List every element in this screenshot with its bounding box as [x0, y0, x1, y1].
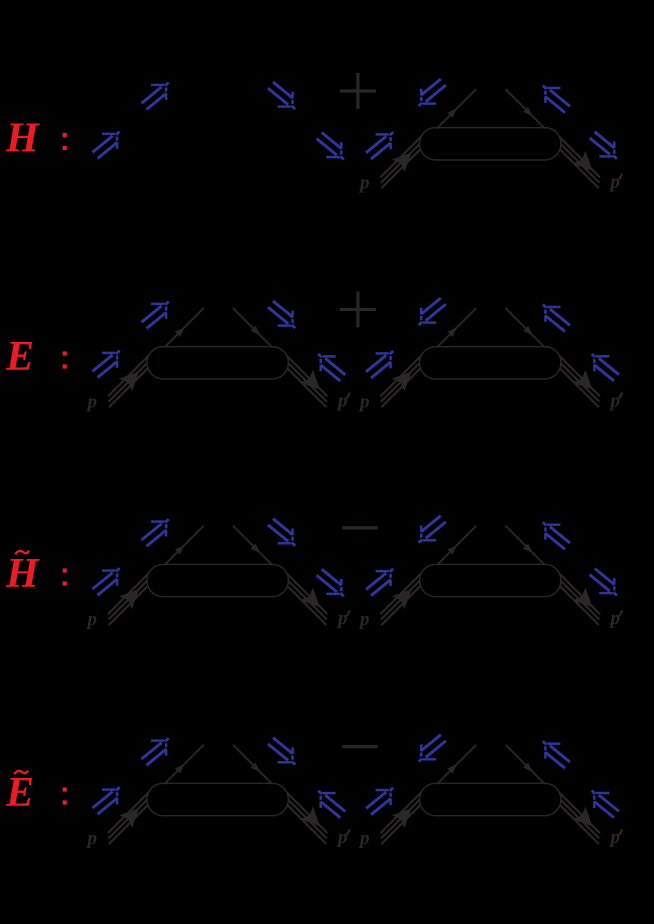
plus sign: [340, 73, 376, 109]
svg-text:H: H: [5, 551, 40, 597]
spin arrow B4 (flipped nucleon): [592, 354, 619, 381]
spin arrow A4 (flipped nucleon): [318, 354, 345, 381]
spin arrow B4: [590, 569, 617, 596]
spin arrow B1: [366, 788, 393, 815]
spin arrow A2: [142, 302, 169, 329]
tilde accent: [14, 771, 28, 775]
colon: [63, 568, 67, 585]
handbag diagram (right): [358, 89, 622, 194]
spin arrow B3: [543, 741, 570, 768]
spin arrow B4 (nucleon out, right diagram): [590, 132, 617, 159]
spin arrow A3 (quark, left diagram): [268, 82, 295, 109]
spin arrow A2 (quark, left diagram): [142, 83, 169, 110]
spin arrow A3: [268, 519, 295, 546]
svg-text:E: E: [5, 770, 34, 816]
svg-text:E: E: [5, 334, 34, 380]
handbag diagram (left): [86, 526, 350, 631]
spin arrow B4 (flipped nucleon): [592, 791, 619, 818]
spin arrow A4 (nucleon out, left diagram): [317, 133, 344, 160]
spin arrow B1 (nucleon in, right diagram): [366, 132, 393, 159]
spin arrow B3: [543, 305, 570, 332]
spin arrow A3: [268, 301, 295, 328]
spin arrow A1 (nucleon in, left diagram): [93, 132, 120, 159]
spin arrow A1: [93, 568, 120, 595]
handbag diagram (left): [86, 308, 350, 413]
spin arrow A4: [317, 569, 344, 596]
handbag diagram (right): [358, 526, 622, 631]
plus sign: [340, 291, 376, 327]
spin arrow A3: [268, 738, 295, 765]
spin arrow B3: [543, 522, 570, 549]
spin arrow A1: [93, 351, 120, 378]
colon: [63, 133, 67, 150]
spin arrow A1: [93, 787, 120, 814]
spin arrow B3 (quark, right diagram): [543, 86, 570, 113]
minus sign: [342, 746, 377, 748]
spin arrow B1: [366, 569, 393, 596]
tilde accent: [15, 551, 29, 555]
spin arrow B1: [366, 351, 393, 378]
spin arrow B2 (quark, right diagram): [419, 79, 446, 106]
spin arrow B2: [419, 516, 446, 543]
colon: [63, 787, 67, 804]
spin arrow A4 (flipped nucleon): [318, 791, 345, 818]
spin arrow A2: [142, 519, 169, 546]
spin arrow B2: [419, 735, 446, 762]
spin arrow B2: [419, 298, 446, 325]
minus sign: [342, 527, 377, 529]
handbag diagram (right): [358, 308, 622, 413]
handbag diagram (left): [86, 745, 350, 850]
svg-text:H: H: [5, 115, 40, 161]
handbag diagram (right): [358, 745, 622, 850]
spin arrow A2: [142, 738, 169, 765]
colon: [63, 351, 67, 368]
